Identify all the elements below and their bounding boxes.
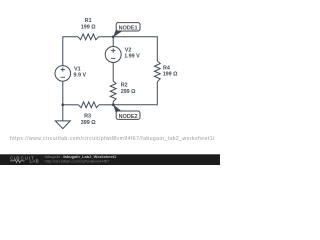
voltage source V1: [55, 66, 71, 82]
resistor R4: [154, 61, 160, 82]
node dot at ground junction: [61, 103, 64, 106]
NODE1 flag pointer: [113, 30, 122, 38]
wire R2 to bottom rail: [112, 102, 114, 105]
resistor R1: [78, 34, 99, 40]
wire top rail left segment: [63, 37, 78, 66]
svg-text:199 Ω: 199 Ω: [81, 24, 96, 30]
V1 minus sign: [61, 76, 65, 78]
svg-text:R2: R2: [121, 83, 128, 89]
wire bottom rail left: [63, 104, 79, 106]
node dot at NODE1 junction: [112, 35, 115, 38]
svg-text:http://circuitlab.com/c/pfwd8v: http://circuitlab.com/c/pfwd8vm94f67: [45, 158, 110, 163]
V2 plus sign: [111, 50, 115, 52]
svg-text:https://www.circuitlab.com/cir: https://www.circuitlab.com/circuit/pfwd8…: [10, 136, 215, 142]
resistor R3: [79, 102, 100, 108]
svg-text:399 Ω: 399 Ω: [81, 120, 96, 126]
wire V2 to R2: [112, 63, 114, 82]
node NODE2 label box: [116, 111, 140, 120]
svg-text:299 Ω: 299 Ω: [121, 89, 136, 95]
node dot at NODE2 junction: [112, 103, 115, 106]
resistor R2: [110, 81, 116, 102]
svg-text:V1: V1: [74, 66, 81, 72]
footer bar: [0, 154, 220, 165]
node NODE1 label box: [116, 23, 140, 32]
svg-text:NODE2: NODE2: [119, 114, 138, 120]
svg-text:199 Ω: 199 Ω: [163, 71, 178, 77]
ground: [55, 121, 70, 129]
svg-text:R1: R1: [85, 18, 92, 24]
svg-text:NODE1: NODE1: [119, 26, 138, 32]
wire right rail lower: [113, 82, 157, 105]
wire middle branch: [112, 37, 114, 47]
junction node dots: [61, 30, 121, 113]
svg-text:LAB: LAB: [30, 159, 40, 164]
NODE2 flag pointer: [113, 104, 122, 112]
voltage source V2: [105, 47, 121, 63]
svg-text:R3: R3: [84, 114, 91, 120]
svg-text:9.9 V: 9.9 V: [74, 73, 87, 79]
svg-text:V2: V2: [125, 48, 132, 54]
wire top rail right segment: [99, 37, 158, 61]
svg-text:1.99 V: 1.99 V: [124, 54, 140, 60]
footer logo zigzag wire: [10, 159, 25, 162]
wire bottom rail mid: [99, 104, 113, 106]
wire V1 bottom to ground node: [62, 81, 64, 121]
V2 minus sign: [111, 57, 115, 59]
V1 plus sign: [61, 48, 116, 77]
